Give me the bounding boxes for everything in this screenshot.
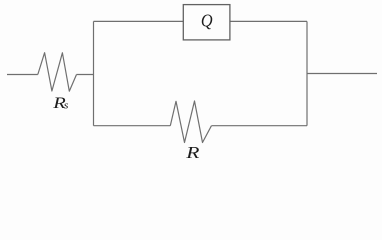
wire: left input lead <box>7 74 38 76</box>
resistor Rs <box>38 53 77 91</box>
svg-text:s: s <box>64 100 69 111</box>
wire: right output lead <box>307 73 377 75</box>
label Q <box>201 11 213 31</box>
svg-text:Q: Q <box>201 11 213 31</box>
wire: top branch left segment <box>94 20 184 22</box>
wire: left junction vertical <box>93 21 95 125</box>
wire: bottom branch left segment <box>94 125 171 127</box>
label R <box>185 144 200 162</box>
wire: bottom branch right segment <box>211 125 307 127</box>
resistor R <box>170 101 211 143</box>
wire: top branch right segment <box>230 20 307 22</box>
crystal Q box <box>183 5 230 40</box>
wire: Rs to left junction <box>77 74 94 76</box>
wire: right junction vertical <box>306 21 308 125</box>
label Rs <box>52 94 66 111</box>
svg-text:R: R <box>185 144 200 160</box>
